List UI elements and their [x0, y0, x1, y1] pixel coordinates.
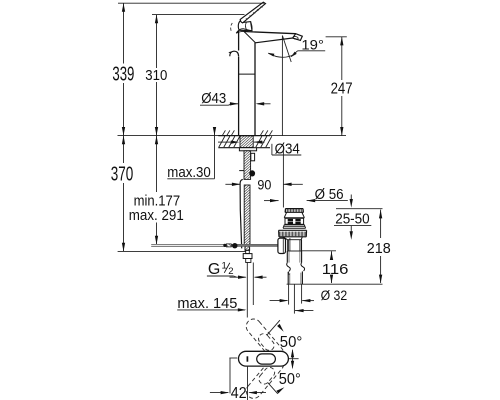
svg-text:90: 90 [257, 177, 271, 192]
svg-text:310: 310 [145, 68, 167, 84]
svg-text:218: 218 [367, 241, 391, 257]
svg-text:247: 247 [331, 81, 353, 98]
svg-text:339: 339 [112, 63, 134, 86]
svg-text:max. 291: max. 291 [129, 208, 184, 224]
svg-text:116: 116 [322, 262, 349, 278]
svg-text:Ø 32: Ø 32 [321, 288, 348, 304]
svg-text:25-50: 25-50 [335, 211, 370, 228]
svg-text:Ø34: Ø34 [275, 141, 300, 157]
svg-text:42: 42 [231, 385, 247, 400]
svg-text:G: G [208, 261, 220, 278]
svg-text:50°: 50° [280, 334, 303, 351]
svg-text:50°: 50° [279, 371, 301, 388]
svg-text:370: 370 [111, 162, 134, 185]
svg-text:19°: 19° [301, 36, 324, 52]
